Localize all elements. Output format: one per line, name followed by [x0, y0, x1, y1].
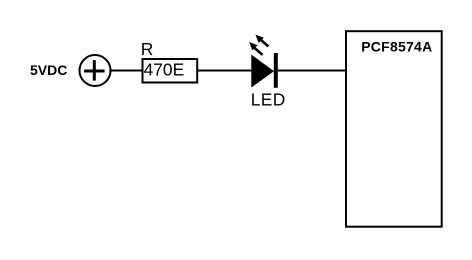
- svg-text:LED: LED: [251, 89, 286, 109]
- svg-text:5VDC: 5VDC: [30, 62, 67, 78]
- svg-text:470E: 470E: [144, 60, 185, 80]
- svg-text:R: R: [141, 39, 154, 59]
- svg-text:PCF8574A: PCF8574A: [361, 39, 432, 55]
